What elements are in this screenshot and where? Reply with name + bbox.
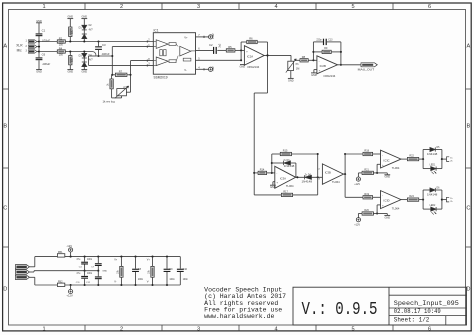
svg-text:GND: GND	[288, 79, 294, 82]
op-amp IC3A	[275, 166, 296, 188]
svg-text:GND: GND	[240, 66, 246, 69]
svg-text:R2: R2	[59, 36, 63, 40]
op-amp IC3D	[381, 191, 402, 211]
resistor R24	[401, 195, 423, 201]
svg-text:TL064: TL064	[332, 180, 340, 184]
wire power pin2 to GND rail	[29, 271, 84, 272]
svg-text:GND: GND	[385, 216, 391, 219]
diode D6 with LED2 loop	[422, 188, 443, 209]
LED LED2	[423, 205, 442, 215]
wire top signal line y41.5	[39, 41, 153, 43]
wire V+ bottom rail	[35, 284, 181, 286]
svg-text:C: C	[3, 205, 7, 211]
capacitor C1	[36, 23, 51, 43]
label 1k rev log	[103, 100, 116, 104]
ground below R3	[67, 70, 73, 74]
wire hook lower line to C3 line	[93, 52, 113, 57]
wire D3 to output	[295, 163, 297, 177]
resistor R17 bottom	[254, 191, 318, 197]
ground above D1	[81, 16, 87, 19]
wire IC2B feedback left leg	[312, 42, 314, 60]
wire power pin1 to V- rail	[29, 257, 34, 267]
op-amp IC2A	[244, 46, 264, 69]
frame row ticks right	[466, 89, 472, 247]
wire LED1 output tag	[442, 157, 454, 163]
svg-text:100n: 100n	[169, 278, 175, 281]
resistor R7 gain	[111, 69, 130, 76]
svg-text:R18: R18	[364, 150, 369, 153]
svg-text:IC3B: IC3B	[325, 171, 331, 175]
svg-text:GND: GND	[102, 271, 107, 273]
wire pin1 vertical x112.3	[111, 47, 113, 75]
resistor R21	[358, 169, 377, 175]
ferrite bead FB2	[57, 280, 64, 286]
svg-text:C1: C1	[42, 29, 46, 33]
svg-text:GND: GND	[68, 71, 74, 74]
IC1 pin 1	[147, 44, 150, 48]
wire pin8 vertical x130.5	[129, 61, 131, 93]
capacitor C12 100n	[86, 271, 102, 286]
resistor R18	[345, 150, 380, 156]
supply -12V top	[66, 244, 72, 258]
svg-text:R15: R15	[283, 150, 288, 153]
wire IC3A feedback left leg	[271, 154, 273, 173]
svg-text:FB2: FB2	[58, 280, 63, 283]
svg-text:100n: 100n	[87, 273, 93, 275]
svg-text:FB1: FB1	[58, 251, 63, 254]
ferrite bead FB1	[57, 251, 64, 257]
svg-text:LED2: LED2	[430, 205, 436, 207]
frame column numbers top	[42, 4, 431, 10]
svg-text:6: 6	[428, 327, 431, 333]
svg-text:1N4148: 1N4148	[427, 154, 438, 156]
diode D4	[302, 174, 313, 183]
wire LED2 output tag	[442, 197, 454, 203]
capacitor C4 47u	[76, 256, 88, 272]
ground IC2B plus input	[311, 73, 317, 77]
LED LED1	[423, 165, 442, 175]
connector X1 XLR Mic	[16, 40, 37, 54]
svg-text:V+: V+	[184, 35, 188, 39]
svg-text:2: 2	[120, 4, 123, 10]
resistor R4	[57, 46, 65, 56]
frame row letters right	[466, 43, 470, 292]
svg-text:GND: GND	[82, 16, 88, 19]
copyright text block	[204, 287, 286, 320]
IC1 internal amplifier B	[156, 57, 176, 66]
svg-text:100n: 100n	[138, 278, 144, 281]
node D2 top line	[83, 40, 85, 42]
svg-text:1N4148: 1N4148	[284, 166, 295, 168]
ground above C1	[36, 20, 42, 23]
svg-text:1M: 1M	[296, 68, 299, 71]
wire IC2A output	[264, 54, 291, 56]
capacitor C8	[132, 256, 144, 287]
svg-text:C3: C3	[102, 43, 106, 47]
wire IC2A output down to rectifier	[254, 93, 267, 195]
svg-text:OPA2134: OPA2134	[323, 74, 335, 78]
svg-text:GND: GND	[270, 186, 276, 189]
svg-text:C: C	[466, 205, 470, 211]
ground right of IC3C plus node	[377, 173, 390, 179]
svg-text:GND: GND	[68, 16, 74, 19]
svg-text:TL064: TL064	[392, 206, 400, 210]
svg-text:1: 1	[42, 4, 45, 10]
wire P2 bottom loop	[112, 96, 122, 98]
version text V.: 0.9.5	[302, 299, 378, 320]
svg-text:+12V: +12V	[354, 183, 360, 186]
net flag MAU_OUT	[358, 63, 378, 72]
node R3 lower line	[69, 50, 71, 52]
wire IC2B plus input to ground	[314, 70, 317, 73]
svg-text:2x D4: 2x D4	[305, 174, 312, 176]
wire IC2B feedback right leg	[340, 42, 342, 66]
supply -12V at IC1 pin 4	[209, 66, 215, 71]
zener D4	[82, 58, 94, 69]
svg-text:D: D	[466, 286, 470, 292]
svg-text:SSM2019: SSM2019	[154, 76, 168, 80]
svg-text:MAU_OUT: MAU_OUT	[358, 68, 375, 72]
svg-text:LED1: LED1	[430, 165, 436, 167]
svg-text:www.haraldswerk.de: www.haraldswerk.de	[204, 313, 274, 320]
wire pin8 line y60.6	[131, 60, 154, 62]
svg-text:R19: R19	[364, 193, 369, 196]
svg-text:4: 4	[274, 4, 277, 10]
wire IC3D plus input	[376, 205, 380, 215]
svg-text:IC1: IC1	[154, 29, 159, 33]
svg-text:A: A	[467, 43, 471, 49]
wire GND rail mid	[85, 271, 108, 273]
svg-text:C10: C10	[183, 268, 188, 271]
diode D3 feedback	[272, 160, 296, 168]
zener D2	[82, 29, 94, 41]
frame column numbers bottom	[42, 327, 431, 333]
zener D1	[79, 19, 93, 30]
op-amp IC1 SSM2019 body	[153, 29, 195, 80]
resistor R5	[226, 45, 244, 52]
svg-text:+: +	[319, 69, 321, 73]
svg-text:6: 6	[428, 4, 431, 10]
resistor R2	[57, 36, 65, 46]
date text 02.08.17 10:49	[394, 308, 441, 315]
wire pin1 line y46.6	[112, 46, 153, 48]
svg-text:-: -	[276, 172, 277, 175]
svg-text:5: 5	[351, 327, 354, 333]
svg-text:R22: R22	[409, 155, 414, 158]
svg-text:R20: R20	[364, 209, 369, 212]
capacitor C10	[177, 257, 189, 285]
zener D3	[79, 52, 93, 59]
svg-text:C13: C13	[328, 39, 333, 41]
svg-text:R7: R7	[119, 69, 123, 73]
resistor R22	[401, 155, 423, 161]
wire IC2B output	[338, 64, 362, 66]
svg-text:-12V: -12V	[212, 66, 215, 71]
supply +12V at IC1 pin 7	[209, 33, 215, 39]
svg-text:3: 3	[197, 327, 200, 333]
capacitor C13 feedback	[313, 39, 341, 45]
capacitor C9	[164, 256, 176, 287]
svg-text:OPA2134: OPA2134	[247, 65, 259, 69]
resistor R3	[69, 52, 74, 70]
wire P2 wiper to x130.5	[126, 91, 130, 93]
resistor R1	[69, 19, 74, 42]
svg-text:1N4148: 1N4148	[302, 182, 313, 184]
svg-text:150: 150	[59, 54, 64, 57]
supply +12V below R20	[354, 214, 360, 227]
svg-text:GND: GND	[36, 20, 42, 23]
svg-text:IC3A: IC3A	[280, 177, 286, 181]
trimpot P2	[115, 86, 129, 98]
svg-text:D: D	[3, 286, 7, 292]
ground IC3A plus input	[270, 182, 276, 189]
supply +12V below R21	[354, 173, 360, 186]
resistor R14	[253, 169, 275, 175]
svg-text:TL064: TL064	[286, 184, 294, 188]
op-amp IC3B	[317, 164, 343, 184]
resistor R15 feedback	[272, 150, 318, 156]
IC1 pin 4 wire	[196, 66, 209, 70]
wire IC3C plus input	[376, 164, 380, 174]
svg-text:R21: R21	[364, 169, 369, 172]
wire C3 branch down to pin3 line	[89, 56, 97, 65]
svg-text:5: 5	[351, 4, 354, 10]
svg-text:+: +	[246, 50, 248, 54]
IC1 internal amplifier C	[176, 44, 191, 61]
svg-text:1N4148: 1N4148	[427, 194, 438, 196]
IC1 pin 3	[147, 63, 150, 67]
svg-text:IC3D: IC3D	[384, 199, 390, 203]
svg-text:Mic: Mic	[17, 48, 22, 52]
ground tag IC2A	[240, 65, 246, 69]
wire lower signal line y51.5	[39, 51, 93, 53]
wire feedback down x267.5	[266, 42, 268, 93]
svg-text:A: A	[3, 43, 7, 49]
ground below P1	[288, 71, 294, 83]
svg-text:B: B	[3, 124, 7, 130]
wire IC3A output	[296, 176, 323, 178]
node IC2B minus input	[312, 59, 314, 61]
IC1 internal resistors	[160, 50, 166, 56]
IC1 pin 5 wire	[196, 57, 242, 60]
svg-text:-: -	[382, 154, 383, 157]
capacitor C2	[209, 43, 226, 54]
frame column ticks bottom	[85, 325, 393, 331]
svg-text:100n: 100n	[87, 259, 93, 261]
svg-text:C2: C2	[209, 43, 213, 47]
wire IC3B feedback and branch vertical x345.1	[344, 153, 346, 197]
capacitor C11 47u	[76, 271, 88, 286]
title text Speech_Input_095	[394, 300, 459, 307]
svg-text:+12V: +12V	[212, 33, 215, 39]
svg-text:4V7: 4V7	[89, 59, 94, 61]
wire P1 wiper to R8	[295, 59, 300, 61]
svg-text:R17: R17	[283, 191, 288, 194]
net labels V+ V- left	[114, 258, 118, 283]
svg-text:100uF: 100uF	[42, 62, 50, 66]
svg-text:R8: R8	[302, 55, 306, 59]
svg-text:100n: 100n	[183, 278, 189, 281]
resistor R9 feedback	[313, 47, 341, 53]
svg-text:IC2B: IC2B	[320, 64, 326, 68]
IC1 pin 8	[147, 58, 150, 62]
svg-text:V.: 0.9.5: V.: 0.9.5	[302, 299, 378, 320]
svg-text:TL064: TL064	[392, 166, 400, 170]
svg-text:XLR: XLR	[16, 44, 23, 48]
diode D5 with LED1 loop	[422, 147, 443, 168]
svg-text:GND: GND	[36, 71, 42, 74]
wire feedback vertical x241.1	[240, 42, 242, 61]
IC1 internal amplifier A	[156, 40, 176, 49]
svg-text:220p: 220p	[316, 39, 322, 41]
svg-text:2: 2	[120, 327, 123, 333]
svg-text:R6: R6	[249, 37, 253, 41]
svg-text:V-: V-	[147, 281, 149, 284]
svg-text:3: 3	[197, 4, 200, 10]
capacitor C6	[36, 53, 51, 70]
wire power pin3 to V+ rail	[29, 277, 34, 285]
wire rectifier node vertical x317.7	[317, 153, 319, 195]
svg-text:1: 1	[42, 327, 45, 333]
title block outline	[293, 287, 467, 325]
node R5 plus input	[240, 49, 242, 51]
svg-text:-: -	[319, 59, 320, 63]
op-amp IC2B	[317, 56, 338, 78]
svg-text:02.08.17 10:49: 02.08.17 10:49	[394, 308, 441, 315]
IC1 internal pin stubs	[153, 42, 195, 66]
svg-text:IC2A: IC2A	[247, 54, 253, 58]
svg-text:-: -	[382, 195, 383, 198]
op-amp IC3C	[381, 150, 402, 170]
svg-text:C6: C6	[42, 53, 46, 57]
svg-text:1k rev log: 1k rev log	[103, 100, 116, 104]
ground below D4	[81, 70, 87, 74]
resistor R11 bleeder	[117, 256, 123, 287]
svg-text:-: -	[246, 59, 247, 63]
svg-text:R5: R5	[228, 45, 232, 49]
svg-text:R24: R24	[409, 195, 414, 198]
capacitor C7 100n	[87, 256, 102, 272]
wire mic pins to rail	[37, 42, 39, 52]
svg-text:-12V: -12V	[66, 244, 72, 248]
node D3 lower line	[83, 50, 85, 52]
svg-text:GND: GND	[82, 71, 88, 74]
frame row letters left	[3, 43, 7, 292]
IC1 pin 2	[147, 39, 150, 43]
wire V- top rail	[35, 256, 181, 258]
svg-text:GND: GND	[385, 176, 391, 179]
trimpot P1	[286, 55, 300, 72]
node IC3A minus	[271, 172, 273, 174]
svg-text:V-: V-	[184, 68, 187, 72]
supply +12V bottom	[66, 284, 73, 297]
capacitor C3	[95, 40, 110, 57]
svg-text:4V7: 4V7	[89, 29, 94, 31]
frame row ticks left	[2, 89, 8, 247]
svg-text:+12V: +12V	[66, 293, 73, 297]
svg-text:150: 150	[59, 44, 64, 47]
svg-text:4: 4	[274, 327, 277, 333]
node rail x39	[38, 36, 40, 57]
svg-text:B: B	[467, 124, 471, 130]
ground below C6	[36, 70, 42, 74]
IC1 pin 6 wire	[196, 47, 214, 50]
node R1 top line	[69, 40, 71, 42]
frame column ticks top	[85, 3, 393, 10]
connector X2 power	[15, 265, 29, 280]
resistor R12 bleeder	[149, 256, 155, 287]
ground right of IC3D plus node	[377, 214, 390, 220]
svg-text:V-: V-	[114, 281, 116, 284]
resistor R6 feedback	[241, 37, 267, 44]
svg-text:R14: R14	[260, 169, 265, 172]
resistor R10	[108, 75, 114, 98]
IC1 pin 7 wire	[196, 34, 209, 38]
svg-text:Speech_Input_095: Speech_Input_095	[394, 300, 459, 307]
svg-text:+12V: +12V	[354, 223, 360, 226]
wire IC3B output	[344, 173, 347, 175]
svg-text:GND: GND	[311, 74, 317, 77]
resistor R8	[300, 55, 317, 62]
resistor R19	[345, 193, 380, 199]
wire pin3 long line y65.4	[89, 64, 154, 66]
resistor R20	[358, 209, 377, 215]
svg-text:Sheet: 1/2: Sheet: 1/2	[394, 316, 430, 323]
svg-text:IC3C: IC3C	[384, 158, 390, 162]
svg-text:R4: R4	[59, 46, 63, 50]
sheet text Sheet: 1/2	[394, 316, 430, 323]
ground above R1	[67, 16, 73, 19]
net labels V+ V- mid	[147, 258, 151, 283]
svg-text:2x D3: 2x D3	[283, 160, 290, 162]
